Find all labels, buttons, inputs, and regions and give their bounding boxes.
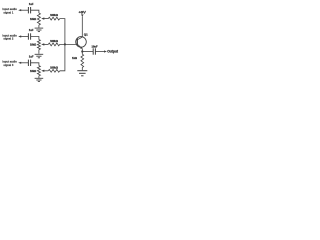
potentiometer R1 — [37, 13, 40, 25]
resistor R5 — [48, 43, 59, 46]
+9V supply arrow — [81, 14, 84, 16]
svg-text:Q1: Q1 — [84, 32, 88, 36]
ground input 2 — [35, 54, 44, 58]
wire +9V to collector of Q1 — [81, 17, 83, 38]
input 1 arrow — [18, 9, 21, 11]
wire R2 to ground — [38, 50, 40, 54]
svg-text:10kΩ: 10kΩ — [30, 44, 36, 47]
wire C4 to output — [96, 51, 105, 53]
resistor R6 — [48, 69, 59, 72]
ground input 3 — [35, 78, 44, 81]
junction node emitter output — [81, 50, 83, 52]
resistor R7 emitter — [81, 54, 84, 67]
node input audio signal 1 label — [2, 7, 17, 14]
R2 wiper arrow — [41, 43, 44, 45]
wire input 3 to C3 — [21, 62, 28, 64]
C3 value label — [29, 55, 34, 59]
R4 value label — [50, 13, 58, 17]
wire emitter of Q1 down — [81, 49, 83, 55]
node input audio signal 3 label — [2, 60, 17, 67]
C1 value label — [29, 2, 34, 6]
R3 value label — [30, 70, 36, 73]
wire R5 to base of Q1 — [60, 43, 77, 45]
junction node base bus — [64, 43, 66, 45]
resistor R4 — [48, 17, 59, 20]
R7 value label — [72, 56, 77, 60]
C2 value label — [29, 28, 34, 32]
R3 wiper arrow — [41, 70, 44, 72]
svg-text:10kΩ: 10kΩ — [30, 70, 36, 73]
ground emitter — [77, 71, 87, 76]
wire input 2 to C2 — [21, 36, 28, 38]
input 2 arrow — [18, 35, 21, 37]
potentiometer R3 — [37, 66, 40, 76]
output arrow — [104, 50, 107, 52]
wire wiper 2 to R5 — [44, 43, 48, 45]
capacitor C4 — [93, 48, 95, 54]
capacitor C2 — [28, 33, 30, 39]
wire R3 to ground — [38, 76, 40, 78]
node input audio signal 2 label — [2, 33, 17, 40]
wire R7 to ground — [81, 67, 83, 70]
potentiometer R2 — [37, 40, 40, 50]
wire C2 to potentiometer R2 — [31, 37, 39, 40]
R6 value label — [50, 65, 58, 69]
svg-text:Output: Output — [107, 50, 119, 54]
wire C3 to potentiometer R3 — [31, 63, 39, 66]
R2 value label — [30, 44, 36, 47]
R1 wiper arrow — [41, 17, 44, 19]
ground input 1 — [35, 28, 44, 32]
wire R6 to bus — [60, 44, 65, 70]
input 3 arrow — [18, 62, 21, 64]
transistor Q1 — [76, 37, 87, 49]
wire emitter junction to C4 — [82, 51, 93, 53]
node Output label — [107, 50, 119, 54]
C4 value label — [92, 45, 98, 49]
capacitor C3 — [28, 60, 30, 66]
wire wiper 1 to R4 — [44, 18, 48, 20]
wire wiper 3 to R6 — [44, 70, 48, 72]
node +9V supply label — [79, 9, 87, 14]
Q1 reference label — [84, 32, 88, 36]
R5 value label — [50, 39, 58, 43]
wire R4 to bus — [60, 19, 65, 45]
wire input 1 to C1 — [21, 9, 28, 11]
svg-text:+9V: +9V — [79, 9, 87, 14]
capacitor C1 — [28, 7, 30, 13]
wire C1 to potentiometer R1 — [31, 10, 39, 13]
svg-text:10kΩ: 10kΩ — [30, 18, 36, 21]
wire R1 to ground — [38, 25, 40, 28]
R1 value label — [30, 18, 36, 21]
